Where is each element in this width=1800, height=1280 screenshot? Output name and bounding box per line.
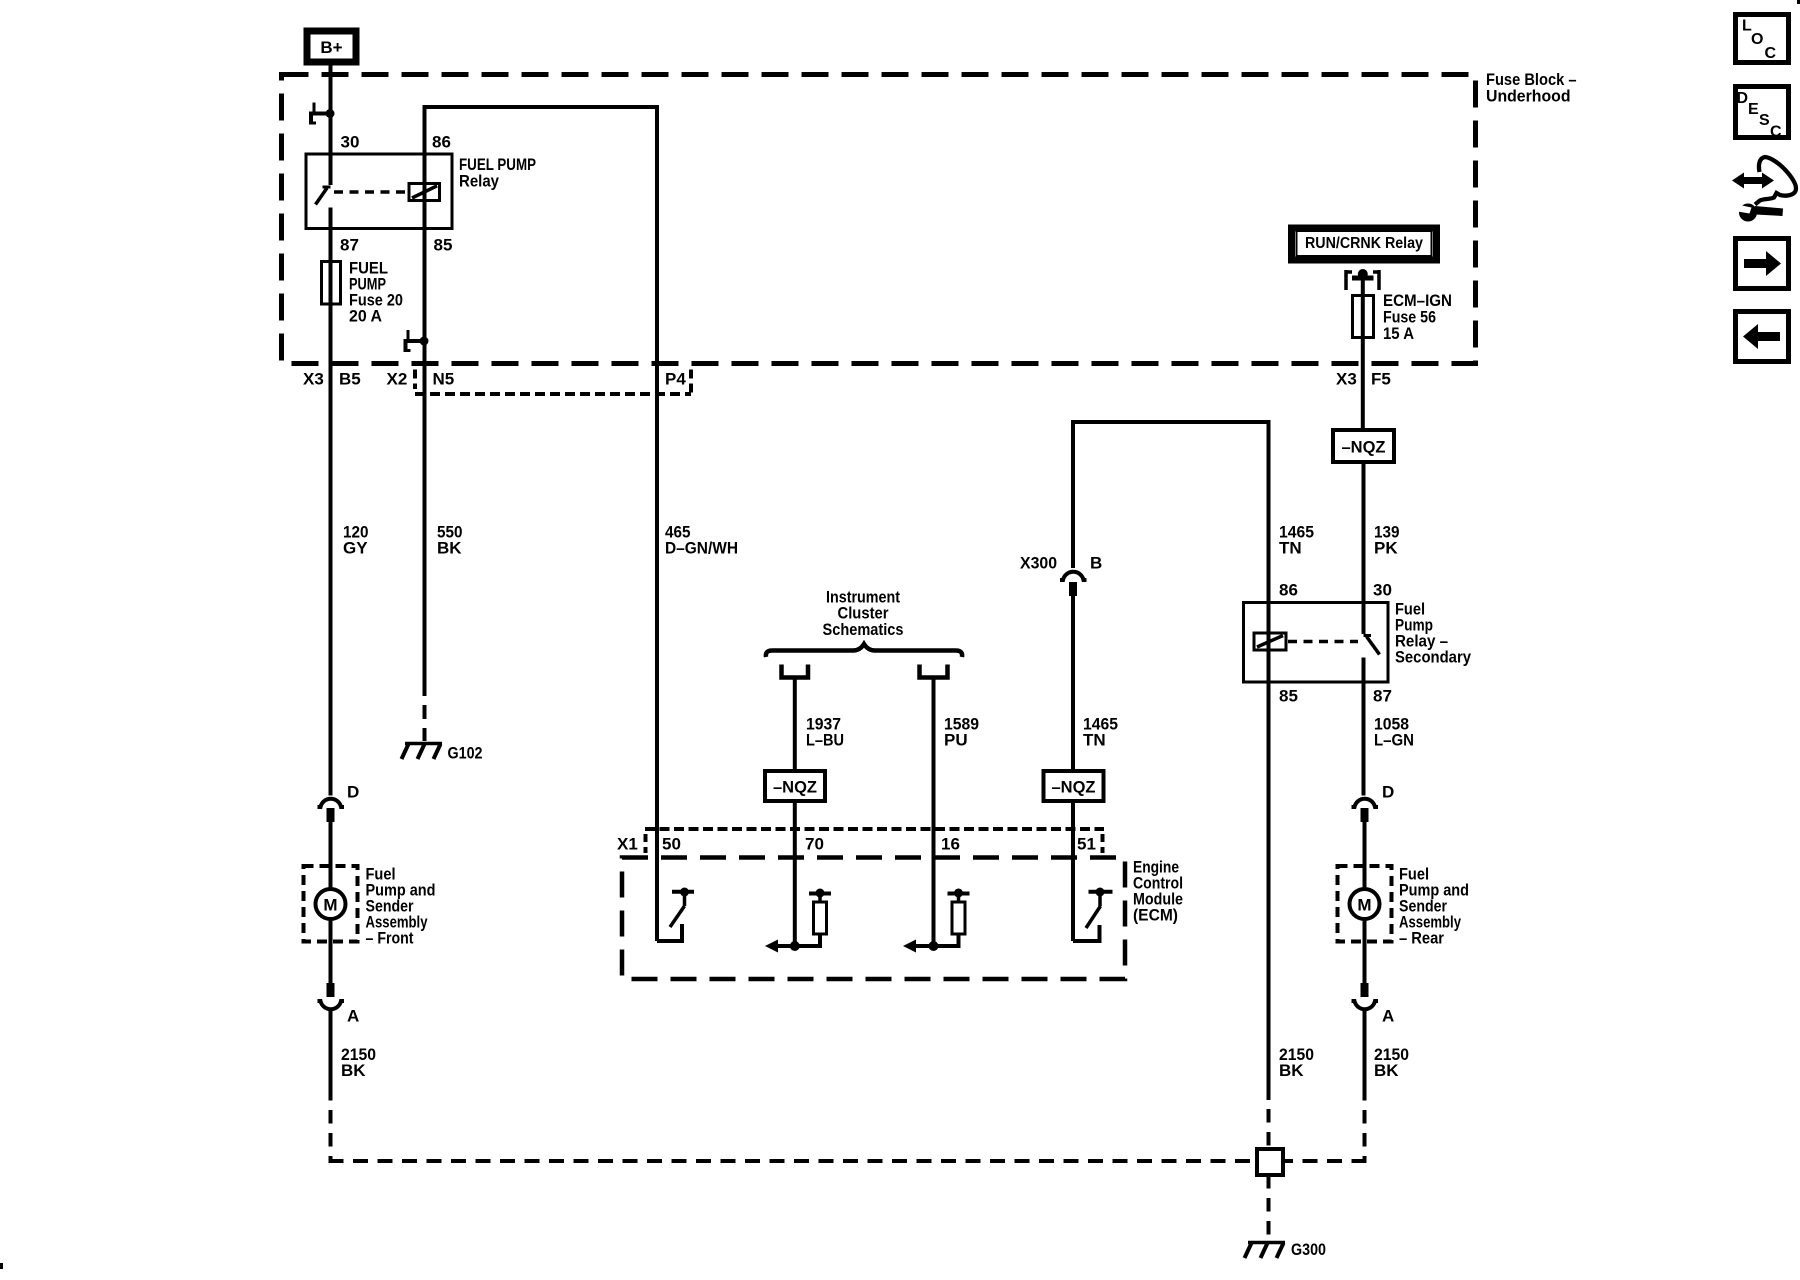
- wire label 139 PK: [1374, 523, 1400, 558]
- motor M rear: [1350, 889, 1380, 919]
- connector A front (in-line): [318, 983, 360, 1026]
- svg-text:L–GN: L–GN: [1374, 731, 1414, 750]
- svg-text:N5: N5: [433, 370, 455, 389]
- svg-text:85: 85: [1279, 687, 1298, 706]
- wire clip to fuse: [1361, 274, 1365, 296]
- connector D rear (in-line): [1352, 783, 1395, 823]
- svg-text:X2: X2: [387, 370, 408, 389]
- wire 465 D-GN/WH down to ECM pin 50: [655, 364, 659, 941]
- wire label 1058 L-GN: [1374, 715, 1414, 750]
- wire pin 86 up and over to P4: [425, 107, 658, 364]
- svg-text:PU: PU: [944, 731, 968, 750]
- label Fuse Block - Underhood: [1486, 70, 1577, 106]
- connector D front (in-line): [318, 783, 360, 823]
- wire rear 2150 BK to junction: [1285, 1011, 1367, 1161]
- wire label 2150 BK rear: [1374, 1045, 1409, 1080]
- ECM dashed box: [622, 858, 1125, 980]
- label rear assembly: [1399, 865, 1469, 948]
- tap splice on B+ feed: [309, 103, 335, 125]
- svg-text:BK: BK: [1279, 1061, 1304, 1080]
- instrument cluster title: [823, 588, 904, 640]
- svg-text:X300: X300: [1020, 554, 1057, 573]
- wire 120 GY fuse to connector D: [329, 304, 333, 796]
- battery terminal B+: [307, 31, 356, 62]
- svg-text:51: 51: [1077, 835, 1096, 854]
- relay FUEL PUMP box: [306, 154, 452, 229]
- connector pin labels X3 B5 X2 N5 P4: [303, 370, 686, 389]
- svg-text:Schematics: Schematics: [823, 620, 904, 639]
- wire pin 85 down to ground net: [1267, 682, 1271, 1149]
- svg-text:30: 30: [1373, 581, 1392, 600]
- wire fuse to X3 F5 to -NQZ: [1361, 338, 1365, 431]
- svg-text:Relay: Relay: [459, 172, 499, 191]
- svg-text:BK: BK: [1374, 1061, 1399, 1080]
- svg-text:20 A: 20 A: [349, 307, 382, 326]
- wire label 550 BK: [437, 523, 463, 558]
- labels X3 F5: [1336, 370, 1391, 389]
- svg-text:D: D: [1737, 90, 1749, 107]
- svg-text:PK: PK: [1374, 539, 1398, 558]
- svg-text:D: D: [347, 783, 359, 802]
- svg-text:–NQZ: –NQZ: [773, 778, 817, 797]
- svg-text:–NQZ: –NQZ: [1052, 778, 1096, 797]
- svg-text:B+: B+: [320, 38, 342, 57]
- svg-text:– Rear: – Rear: [1399, 929, 1444, 948]
- svg-text:87: 87: [340, 236, 359, 255]
- wire dashed to ground G102: [423, 682, 427, 741]
- wire label 465 D-GN/WH: [665, 523, 738, 558]
- svg-text:BK: BK: [341, 1061, 366, 1080]
- fuel pump and sender assembly rear dashed box: [1338, 866, 1392, 942]
- wire label 2150 BK mid: [1279, 1045, 1314, 1080]
- label Engine Control Module (ECM): [1133, 858, 1183, 925]
- motor M front: [316, 889, 346, 919]
- ECM switch at pin 50: [657, 888, 694, 942]
- svg-text:–NQZ: –NQZ: [1342, 438, 1386, 457]
- wire motor to connector A: [329, 919, 333, 983]
- svg-text:O: O: [1751, 31, 1763, 48]
- wire D to pump motor: [329, 822, 333, 890]
- svg-text:M: M: [323, 896, 337, 915]
- sidebar icon arrow right: [1736, 239, 1789, 289]
- svg-text:B: B: [1090, 554, 1102, 573]
- svg-text:X1: X1: [617, 835, 638, 854]
- RUN/CRNK Relay box: [1292, 228, 1437, 260]
- label front assembly: [366, 865, 436, 948]
- page corner mark bottom-left: [0, 1263, 3, 1269]
- label secondary relay: [1395, 600, 1471, 667]
- sidebar icon DESC: [1736, 87, 1789, 141]
- fuse FUEL PUMP 20A: [322, 259, 404, 326]
- relay Fuel Pump Relay Secondary box: [1244, 603, 1389, 683]
- pin labels relay 1: [340, 133, 536, 255]
- wire label 1465 TN mid: [1083, 715, 1118, 750]
- wire X300 branch from top: [1073, 422, 1269, 603]
- svg-text:86: 86: [1279, 581, 1298, 600]
- svg-text:50: 50: [662, 835, 681, 854]
- svg-text:C: C: [1765, 45, 1777, 62]
- wire D to rear motor: [1363, 822, 1367, 890]
- svg-text:E: E: [1748, 101, 1759, 118]
- tap splice on 550 BK: [404, 330, 429, 352]
- svg-text:D: D: [1382, 783, 1394, 802]
- ground junction block: [1257, 1149, 1283, 1175]
- wire label 2150 BK front: [341, 1045, 376, 1080]
- secondary relay coil: [1254, 633, 1286, 650]
- page corner mark top-right: [1797, 0, 1800, 4]
- svg-text:B5: B5: [339, 370, 361, 389]
- svg-text:M: M: [1357, 896, 1371, 915]
- wire -NQZ to relay pin 30: [1362, 462, 1366, 603]
- wire label 1465 TN right: [1279, 523, 1314, 558]
- svg-text:C: C: [1770, 124, 1782, 141]
- ground G102: [402, 744, 483, 763]
- svg-text:L–BU: L–BU: [806, 731, 844, 750]
- ECM driver at pin 70: [765, 889, 831, 953]
- svg-text:15 A: 15 A: [1383, 324, 1414, 343]
- sidebar icon LOC: [1736, 15, 1789, 63]
- connector X2 dotted bracket N5..P4: [415, 370, 691, 395]
- svg-text:A: A: [1382, 1007, 1394, 1026]
- svg-text:X3: X3: [303, 370, 324, 389]
- splice box -NQZ on 1937: [765, 771, 825, 801]
- svg-text:G300: G300: [1291, 1240, 1326, 1259]
- svg-text:30: 30: [341, 133, 360, 152]
- relay coil: [409, 184, 440, 201]
- ECM pin labels: [617, 835, 1096, 854]
- wire rear motor to connector A: [1363, 919, 1367, 983]
- svg-text:A: A: [347, 1007, 359, 1026]
- wire label 1937 L-BU: [806, 715, 844, 750]
- svg-text:G102: G102: [448, 744, 483, 763]
- wire pin 86-85 through coil: [1267, 603, 1271, 683]
- fuse clip connector below relay: [1345, 269, 1381, 290]
- svg-text:(ECM): (ECM): [1133, 906, 1178, 925]
- wire label 120 GY: [343, 523, 369, 558]
- wire B+ to relay pin 30: [329, 65, 333, 185]
- splice box -NQZ on 139 PK: [1333, 430, 1394, 462]
- svg-text:70: 70: [805, 835, 824, 854]
- svg-text:85: 85: [434, 236, 453, 255]
- wire -NQZ to ECM pin 51: [1071, 801, 1075, 941]
- wire pin 85 down 550 BK: [423, 229, 427, 683]
- wire -NQZ to ECM pin 70: [793, 801, 797, 946]
- svg-text:BK: BK: [437, 539, 462, 558]
- wire pin 87 down 1058 L-GN: [1362, 682, 1366, 796]
- relay actuate dashes: [334, 190, 406, 194]
- svg-text:GY: GY: [343, 539, 368, 558]
- svg-text:F5: F5: [1371, 370, 1391, 389]
- splice box -NQZ on 1465: [1044, 771, 1104, 801]
- pin labels secondary relay bottom: [1279, 687, 1392, 706]
- wire 2150 BK front to ground path: [329, 1011, 1256, 1163]
- ground G300: [1245, 1240, 1327, 1259]
- svg-text:Underhood: Underhood: [1486, 87, 1571, 106]
- wire X300 to -NQZ: [1071, 596, 1075, 771]
- ECM driver at pin 16: [903, 889, 970, 953]
- svg-text:Secondary: Secondary: [1395, 648, 1471, 667]
- relay switch arm pin30-87: [316, 187, 331, 262]
- secondary relay actuate dashes: [1288, 640, 1358, 644]
- connector A rear (in-line): [1352, 983, 1395, 1026]
- off-page connector U left: [782, 665, 809, 678]
- ECM switch at pin 51: [1073, 888, 1113, 942]
- svg-text:X3: X3: [1336, 370, 1357, 389]
- fuse block underhood dashed box: [282, 75, 1476, 364]
- wire 1937 L-BU: [793, 680, 797, 772]
- svg-text:87: 87: [1373, 687, 1392, 706]
- svg-text:86: 86: [432, 133, 451, 152]
- ECM connector X1 dotted line: [645, 829, 1104, 853]
- svg-text:D–GN/WH: D–GN/WH: [665, 539, 738, 558]
- fuse ECM-IGN 15A: [1353, 291, 1453, 343]
- fuel pump and sender assembly front dashed box: [304, 866, 358, 942]
- svg-text:– Front: – Front: [366, 929, 414, 948]
- off-page connector U right: [920, 665, 948, 678]
- svg-text:16: 16: [941, 835, 960, 854]
- svg-text:S: S: [1759, 112, 1770, 129]
- svg-text:RUN/CRNK Relay: RUN/CRNK Relay: [1305, 235, 1423, 252]
- connector X300 (in-line): [1020, 554, 1102, 597]
- wire 1589 PU: [932, 680, 936, 947]
- brace: [766, 644, 962, 657]
- wire label 1589 PU: [944, 715, 979, 750]
- wire pin 86-85 through coil: [423, 154, 427, 229]
- sidebar icon arrow left: [1736, 312, 1789, 362]
- sidebar icon shortcut wrench: [1732, 157, 1796, 222]
- svg-text:TN: TN: [1083, 731, 1106, 750]
- svg-text:TN: TN: [1279, 539, 1302, 558]
- pin labels secondary relay top: [1279, 581, 1392, 600]
- wire junction to ground G300: [1267, 1175, 1271, 1241]
- svg-text:P4: P4: [665, 370, 686, 389]
- secondary relay switch pin 30-87: [1364, 603, 1380, 683]
